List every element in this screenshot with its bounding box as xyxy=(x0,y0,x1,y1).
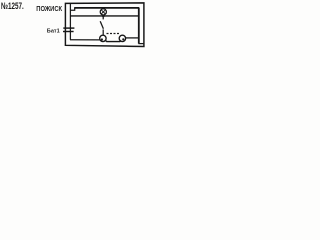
wire: top bus xyxy=(74,7,139,9)
junction dot under lamp xyxy=(102,15,105,18)
lamp HL1 circle xyxy=(100,9,106,15)
bottom bar joining terminals xyxy=(106,41,120,42)
switch S1 bottom stub xyxy=(102,29,104,35)
wire: bottom right hook to case xyxy=(138,43,143,45)
wire: left step at top xyxy=(70,8,75,10)
terminal A dot xyxy=(101,38,103,40)
dashed link between terminals xyxy=(107,33,120,35)
battery Bat plate 2 xyxy=(63,31,74,33)
terminal B circle xyxy=(119,35,125,41)
wire: inner right vertical xyxy=(138,8,140,44)
lamp HL1 cross xyxy=(101,10,105,14)
box (device case outline) xyxy=(65,3,143,47)
switch S1 top stub xyxy=(102,16,104,19)
svg-text:ПОЖИСК: ПОЖИСК xyxy=(36,4,62,13)
terminal B dot xyxy=(122,38,124,40)
wire: inner left vertical xyxy=(69,4,71,40)
terminal A circle xyxy=(100,35,106,41)
battery Bat plate 1 xyxy=(63,27,74,29)
svg-text:№1257.: №1257. xyxy=(1,0,24,11)
wire: middle lamp row xyxy=(70,15,139,17)
wire: bottom left run xyxy=(70,39,100,41)
wire: terminal B to right vertical xyxy=(126,37,139,39)
svg-text:Бат1: Бат1 xyxy=(47,28,61,34)
switch S1 lever (open) xyxy=(100,21,103,29)
